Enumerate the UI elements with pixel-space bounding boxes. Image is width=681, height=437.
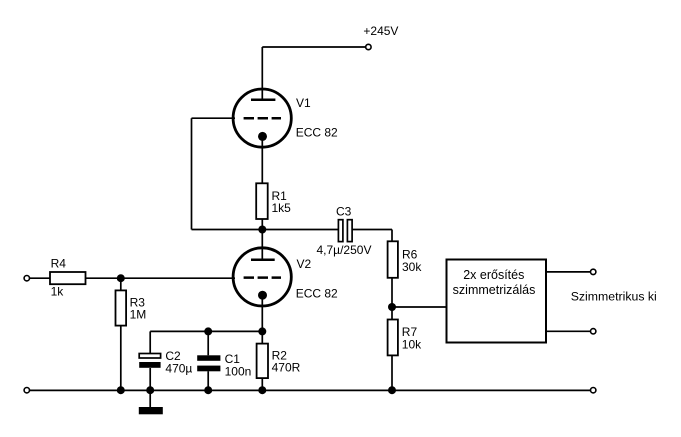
svg-text:Szimmetrikus ki: Szimmetrikus ki [571, 290, 657, 304]
svg-text:4,7µ/250V: 4,7µ/250V [317, 243, 372, 257]
svg-text:1k: 1k [51, 285, 65, 299]
svg-text:C3: C3 [336, 204, 352, 218]
svg-text:R4: R4 [51, 256, 67, 270]
svg-text:100n: 100n [225, 364, 252, 378]
svg-text:V2: V2 [297, 257, 312, 271]
svg-text:szimmetrizálás: szimmetrizálás [453, 283, 536, 297]
svg-text:1M: 1M [130, 308, 147, 322]
svg-text:1k5: 1k5 [272, 201, 292, 215]
svg-text:10k: 10k [402, 338, 422, 352]
svg-text:470µ: 470µ [165, 362, 192, 376]
svg-text:2x erősítés: 2x erősítés [463, 268, 524, 282]
svg-text:ECC 82: ECC 82 [296, 126, 338, 140]
svg-text:+245V: +245V [363, 24, 398, 38]
svg-text:470R: 470R [272, 360, 301, 374]
svg-text:30k: 30k [402, 260, 422, 274]
svg-text:V1: V1 [296, 96, 311, 110]
svg-text:ECC 82: ECC 82 [296, 287, 338, 301]
